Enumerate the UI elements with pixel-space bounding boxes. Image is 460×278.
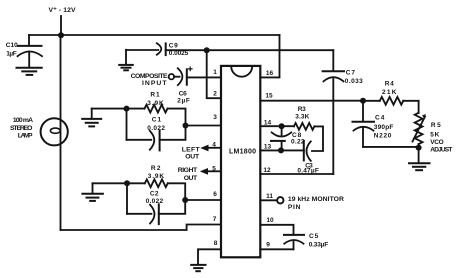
svg-text:STEREO: STEREO [10, 125, 32, 132]
wire R3 right to C3 [312, 126, 323, 151]
svg-text:5: 5 [212, 165, 216, 172]
wire pin 13 [260, 149, 304, 151]
svg-text:R1: R1 [150, 92, 160, 99]
svg-text:12: 12 [263, 167, 271, 174]
svg-text:C9: C9 [169, 43, 178, 50]
capacitor C9 [157, 43, 189, 58]
wire pin 16 to supply rail [260, 35, 279, 77]
svg-text:0.0025: 0.0025 [169, 50, 189, 57]
svg-text:4: 4 [212, 141, 216, 148]
junction pin 3 node [183, 123, 189, 129]
svg-text:7: 7 [213, 216, 217, 223]
pin numbers left side [212, 69, 218, 247]
wire lamp bottom to pin 7 [61, 225, 222, 231]
svg-text:3.3K: 3.3K [295, 114, 309, 121]
svg-text:0.022: 0.022 [146, 198, 164, 205]
svg-text:3.9K: 3.9K [148, 173, 165, 180]
wire pin 12 to C7 [260, 173, 333, 175]
svg-text:LAMP: LAMP [18, 133, 33, 140]
wire R1 left [92, 108, 145, 110]
svg-text:PIN: PIN [288, 204, 301, 211]
ground C9 input [119, 50, 133, 71]
wire R2 left [93, 182, 145, 184]
capacitor C5 0.33uF [284, 233, 328, 249]
svg-text:13: 13 [264, 143, 272, 150]
pin numbers right side [263, 70, 274, 249]
svg-text:9: 9 [266, 242, 270, 249]
junction R1 left node [124, 106, 130, 112]
capacitor C1 0.022 branch [127, 109, 186, 151]
svg-text:RIGHT: RIGHT [178, 167, 198, 174]
svg-text:R4: R4 [385, 80, 394, 87]
svg-text:C7: C7 [346, 69, 356, 76]
wire drop to pin 2 [207, 50, 221, 98]
resistor R2 3.9K [145, 165, 168, 187]
svg-text:390pF: 390pF [374, 124, 394, 131]
wire C6 to pin 1 [187, 76, 221, 78]
lamp DS1 100mA stereo lamp [10, 117, 68, 145]
node V+ supply [49, 7, 76, 35]
junction C9 wire to pin 2 [204, 47, 210, 53]
svg-text:6: 6 [213, 191, 217, 198]
wire pin 10 [260, 225, 293, 235]
svg-text:1: 1 [213, 69, 217, 76]
ground C10 [17, 68, 42, 75]
node LEFT OUT pin 4 [182, 145, 221, 161]
svg-text:OUT: OUT [185, 153, 200, 160]
wire to pin 6 [185, 199, 221, 201]
node composite input terminal [131, 73, 180, 87]
junction pin 13 node [278, 147, 284, 153]
capacitor C8 0.22 [271, 126, 305, 150]
svg-text:10: 10 [266, 217, 274, 224]
node RIGHT OUT pin 5 [178, 167, 221, 182]
svg-text:19 kHz MONITOR: 19 kHz MONITOR [288, 196, 344, 203]
svg-text:0.47µF: 0.47µF [297, 168, 318, 175]
junction pin 15 / C4 / R4 [360, 98, 366, 104]
wire C9 left [126, 49, 158, 51]
svg-text:0.22: 0.22 [291, 139, 305, 146]
svg-text:0.033: 0.033 [345, 78, 363, 85]
svg-text:V⁺ - 12V: V⁺ - 12V [49, 7, 76, 14]
svg-text:21K: 21K [382, 89, 397, 96]
svg-text:3: 3 [213, 114, 217, 121]
svg-text:C2: C2 [150, 190, 159, 197]
svg-text:0.022: 0.022 [147, 125, 165, 132]
wire pin 15 [260, 100, 363, 102]
svg-text:OUT: OUT [184, 175, 198, 182]
svg-text:C6: C6 [179, 91, 187, 98]
svg-text:ADJUST: ADJUST [430, 147, 452, 154]
ground pin 8 [191, 265, 205, 271]
svg-text:16: 16 [266, 70, 274, 77]
capacitor C7 0.033 [323, 50, 364, 174]
capacitor C4 390pF N220 [353, 101, 419, 147]
capacitor C2 0.022 branch [127, 183, 185, 224]
ground R1 [82, 109, 101, 127]
wire R1 right to pin3 node [168, 109, 186, 126]
junction R2 left node [124, 180, 130, 186]
wire to pin 3 [186, 125, 222, 127]
ground R2 [82, 183, 103, 201]
resistor R3 3.3K [294, 106, 315, 130]
svg-text:8: 8 [214, 240, 218, 247]
svg-text:14: 14 [264, 119, 272, 126]
svg-text:LM1800: LM1800 [229, 148, 256, 155]
svg-text:5K: 5K [430, 132, 439, 139]
svg-text:R3: R3 [298, 106, 306, 113]
svg-text:100 mA: 100 mA [13, 117, 33, 124]
resistor R4 21K [363, 80, 419, 113]
junction R5 bottom / C4 / ground [416, 145, 422, 151]
wire pin 8 to ground [198, 249, 221, 264]
svg-text:3.9K: 3.9K [147, 100, 164, 107]
svg-text:INPUT: INPUT [142, 80, 167, 87]
svg-text:0.33µF: 0.33µF [309, 242, 329, 249]
resistor R1 3.9K [145, 92, 168, 113]
junction pin 14 node [279, 123, 285, 129]
svg-text:2: 2 [213, 91, 217, 98]
junction V+ rail [58, 32, 64, 38]
capacitor C6 [177, 67, 192, 105]
op-amp U1 LM1800 IC body [221, 66, 260, 257]
wire lamp branch vertical [60, 35, 62, 230]
junction pin 6 node [182, 197, 188, 203]
svg-text:C1: C1 [152, 117, 162, 124]
potentiometer R5 5K VCO ADJUST [413, 113, 453, 154]
svg-text:15: 15 [265, 93, 273, 100]
svg-text:C10: C10 [6, 42, 18, 49]
wire top supply rail [29, 34, 280, 36]
wire C9 to C7 top [166, 49, 334, 51]
svg-text:VCO: VCO [430, 139, 443, 146]
capacitor C3 0.47uF [297, 141, 318, 175]
svg-text:11: 11 [266, 193, 273, 200]
svg-text:1µF: 1µF [6, 51, 17, 58]
capacitor C10 [6, 35, 42, 67]
wire R2 right to pin6 node [168, 183, 185, 200]
svg-text:C4: C4 [375, 114, 385, 121]
svg-text:COMPOSITE: COMPOSITE [131, 73, 168, 80]
svg-text:N220: N220 [374, 132, 392, 139]
node pin 11 19kHz monitor [260, 196, 344, 211]
svg-text:2µF: 2µF [177, 98, 190, 105]
ground R5 [409, 148, 430, 170]
wire pin 9 [260, 248, 293, 250]
wire pin 14 [260, 125, 294, 127]
svg-text:C5: C5 [309, 233, 319, 240]
